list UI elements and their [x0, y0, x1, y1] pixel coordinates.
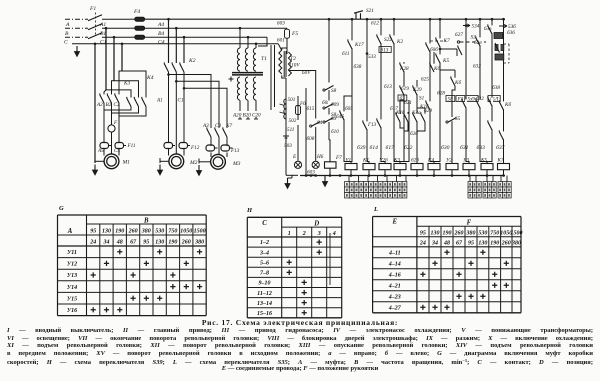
svg-text:S1: S1: [419, 96, 425, 102]
svg-text:1: 1: [288, 231, 291, 237]
svg-text:М1: М1: [122, 160, 131, 166]
stair to M3 1: [169, 75, 212, 129]
svg-text:34: 34: [103, 239, 110, 245]
svg-text:F11: F11: [127, 143, 136, 149]
M2 ground stub: [160, 160, 169, 162]
svg-text:63в: 63в: [484, 26, 492, 32]
svg-text:110V: 110V: [289, 63, 300, 69]
right cluster contact 1: [491, 25, 493, 33]
control wire v10: [451, 96, 453, 160]
K7 link: [439, 48, 442, 51]
motor M3: [211, 154, 226, 169]
svg-text:S8: S8: [331, 88, 337, 94]
svg-text:130: 130: [478, 240, 487, 246]
thermal F11 element 1: [100, 143, 109, 149]
coil feed joint: [400, 160, 404, 163]
svg-text:б37: б37: [496, 144, 505, 151]
svg-text:603: 603: [277, 21, 285, 27]
K3 K4 output merge 3: [119, 107, 146, 117]
M1 phase B down: [111, 107, 113, 125]
svg-text:511: 511: [287, 127, 295, 133]
svg-text:б0б: б0б: [430, 46, 438, 53]
S3 dashed link: [457, 41, 459, 43]
svg-text:б19: б19: [401, 85, 409, 92]
control wire v4: [380, 19, 382, 160]
svg-text:260: 260: [181, 239, 191, 245]
coil feed joint: [466, 160, 469, 163]
svg-text:К1: К1: [362, 158, 369, 164]
arrow 536: [499, 24, 507, 27]
switch F1 pole 3: [88, 33, 102, 39]
svg-text:В: В: [65, 31, 69, 37]
M2 feeder drop phase B: [175, 28, 177, 63]
lamp H6: [312, 161, 319, 168]
svg-text:В4: В4: [158, 31, 164, 37]
svg-text:Т1: Т1: [261, 56, 267, 62]
switch F1 pole 1: [88, 15, 102, 21]
svg-text:С1: С1: [178, 98, 184, 104]
right cluster box 2: [495, 54, 504, 60]
switch F1 link: [95, 13, 97, 37]
relay coil К4: [428, 164, 440, 170]
boxes row 3: [466, 96, 478, 102]
svg-text:48: 48: [116, 239, 123, 245]
svg-text:К28: К28: [399, 66, 409, 72]
relay coil F7: [325, 162, 337, 168]
svg-text:95: 95: [468, 240, 474, 246]
svg-text:У3: У3: [463, 158, 469, 164]
T1 secondary winding 2: [245, 77, 248, 100]
svg-text:Т2: Т2: [290, 56, 296, 62]
M1 feeder drop phase C: [121, 44, 123, 71]
coil feed joint: [503, 160, 505, 163]
svg-text:380: 380: [141, 228, 151, 234]
caption: [0, 318, 600, 327]
right cluster box K4: [494, 33, 503, 39]
svg-text:4–14: 4–14: [388, 262, 401, 268]
svg-text:б13: б13: [381, 46, 389, 53]
extra wire v462 contact: [461, 46, 463, 54]
svg-text:С: С: [64, 40, 68, 46]
T1 core: [232, 72, 263, 74]
contact K2a: [393, 35, 395, 43]
svg-text:9–10: 9–10: [259, 281, 271, 287]
fuse F4 pole 2: [135, 26, 145, 30]
svg-text:G: G: [59, 205, 64, 212]
control wire v13: [491, 19, 493, 160]
svg-text:95: 95: [90, 228, 96, 234]
svg-text:К2: К2: [188, 58, 196, 64]
contactor K7 contact 2: [218, 128, 220, 136]
svg-text:б09: б09: [331, 101, 339, 108]
v344 top jog: [344, 96, 352, 100]
input phase line B (dash-dot): [65, 27, 88, 29]
svg-text:б2в: б2в: [474, 39, 482, 46]
contact K6b: [454, 77, 456, 85]
svg-text:б36: б36: [507, 29, 515, 36]
stub links: [400, 95, 404, 114]
svg-text:24: 24: [419, 240, 426, 246]
control wire v6: [403, 62, 405, 160]
right cluster dashes: [508, 44, 510, 63]
bus B4: [145, 27, 287, 29]
contact K28: [403, 63, 405, 71]
table H grid: [247, 217, 341, 317]
svg-text:3–4: 3–4: [259, 250, 269, 256]
svg-text:F1: F1: [89, 6, 96, 12]
svg-text:А5: А5: [97, 148, 104, 154]
table G grid: [58, 215, 207, 316]
control wire v9: [439, 19, 441, 160]
contact K6a: [433, 63, 435, 71]
svg-text:7–8: 7–8: [260, 271, 269, 277]
contact r3: [491, 97, 493, 105]
coil feed joint: [394, 160, 400, 163]
coil feed joint: [480, 160, 487, 163]
control wire v7: [416, 80, 418, 160]
svg-text:15Л: 15Л: [490, 96, 499, 102]
svg-text:S21: S21: [366, 8, 374, 14]
svg-text:58: 58: [448, 96, 454, 102]
switch S21: [354, 11, 363, 20]
svg-text:б32: б32: [476, 95, 484, 102]
contactor K2 contact 3: [183, 63, 185, 71]
coil feed joint: [451, 160, 453, 163]
T1 feed drop 1: [239, 28, 241, 48]
contactor K3 contact 3: [118, 94, 120, 102]
coil feed joint: [430, 160, 434, 163]
svg-text:б38: б38: [354, 63, 362, 70]
svg-text:130: 130: [102, 228, 111, 234]
svg-text:4–21: 4–21: [388, 284, 401, 290]
contact K17: [351, 40, 353, 48]
input phase line A (dash-dot): [65, 18, 88, 20]
svg-text:F13: F13: [230, 148, 240, 154]
contactor K3 contact 1: [103, 94, 105, 102]
T1 output ticks: [238, 118, 242, 120]
svg-text:534: 534: [472, 23, 480, 30]
S9 chain: [328, 90, 330, 104]
T2 output 60V: [288, 71, 315, 89]
svg-text:К17: К17: [354, 42, 364, 48]
svg-text:F7: F7: [335, 155, 342, 161]
contact K5: [439, 54, 441, 62]
svg-text:Е: Е: [392, 219, 398, 226]
svg-text:б15: б15: [307, 105, 315, 112]
svg-text:А: А: [67, 228, 73, 235]
coil feed joint: [487, 160, 492, 163]
thermal F12 element 2: [179, 143, 188, 149]
svg-text:501: 501: [288, 97, 296, 103]
svg-text:5Зб: 5Зб: [508, 23, 516, 30]
svg-text:К4а: К4а: [411, 109, 421, 116]
svg-text:К29: К29: [412, 87, 422, 93]
terminal 533: [366, 52, 369, 55]
thermal F13 element 1: [206, 145, 215, 151]
neutral bus line: [72, 43, 278, 45]
svg-text:627: 627: [455, 32, 463, 38]
svg-text:А2: А2: [96, 102, 103, 108]
ground at input: [76, 46, 78, 53]
coil feed joint: [344, 160, 351, 163]
svg-text:Г13: Г13: [367, 122, 377, 128]
svg-text:А1: А1: [99, 22, 106, 28]
svg-text:L: L: [373, 206, 378, 213]
F7 wires: [328, 135, 330, 140]
contactor K7 contact 3: [226, 128, 228, 136]
control wire v5: [393, 19, 395, 160]
switch S4 contact: [315, 119, 317, 126]
relay coil б2б: [411, 164, 423, 170]
svg-text:К3: К3: [393, 158, 400, 164]
T2 secondary winding: [288, 52, 291, 76]
svg-text:F5: F5: [291, 31, 298, 37]
svg-text:К3: К3: [123, 81, 130, 87]
svg-text:А1: А1: [156, 98, 163, 104]
boxes row 4: [488, 96, 500, 102]
relay coil К1: [363, 164, 375, 170]
M2 feeder drop phase C: [183, 37, 185, 63]
coil feed joint: [351, 160, 352, 163]
svg-text:Е: Е: [292, 154, 297, 160]
K3 feed link 1: [104, 90, 106, 95]
svg-text:М3: М3: [232, 161, 241, 167]
bus A4 top control bus: [145, 18, 505, 20]
svg-text:503: 503: [284, 143, 292, 149]
M1 phase C down: [118, 107, 120, 142]
ground under M3: [198, 165, 200, 172]
T1 star point ground: [229, 77, 234, 82]
T1 primary winding 3: [253, 48, 256, 71]
control wire v2: [351, 19, 353, 160]
coil feed joint: [381, 160, 385, 163]
switch F1 pole 2: [88, 24, 102, 30]
svg-text:S4: S4: [317, 119, 323, 126]
relay coil К3: [394, 164, 406, 170]
control wire v8: [429, 19, 431, 160]
svg-text:4–27: 4–27: [388, 306, 402, 312]
fuse F4 pole 3: [135, 35, 145, 39]
arrow 534: [465, 24, 468, 27]
svg-text:А4: А4: [157, 22, 164, 28]
svg-text:С20: С20: [252, 113, 261, 119]
svg-text:502: 502: [289, 118, 297, 124]
extra wire v409: [408, 100, 410, 158]
wire A after switch: [102, 18, 130, 20]
svg-text:А3: А3: [202, 123, 209, 129]
T1 output stubs: [239, 117, 241, 119]
svg-text:К2: К2: [396, 39, 403, 45]
ground under M1: [94, 165, 96, 172]
svg-text:С4: С4: [158, 40, 165, 46]
svg-text:130: 130: [431, 230, 440, 236]
svg-text:А: А: [65, 22, 70, 28]
lamp loop 2 left: [305, 88, 307, 175]
cluster contact 1: [399, 113, 401, 121]
svg-text:260: 260: [454, 230, 464, 236]
fuse F4 pole 1: [135, 17, 145, 21]
K3 K4 output merge 2: [112, 107, 139, 114]
cluster contact 3: [416, 113, 418, 121]
svg-text:б13: б13: [384, 83, 392, 90]
svg-text:533: 533: [368, 54, 376, 60]
svg-text:1050: 1050: [180, 228, 192, 234]
bus C4: [145, 36, 267, 38]
K3 feed link 3: [119, 71, 122, 95]
svg-text:F12: F12: [190, 145, 200, 151]
svg-text:11–12: 11–12: [257, 291, 272, 297]
svg-text:F: F: [467, 219, 472, 226]
M2 leads: [168, 149, 170, 156]
M1 feeder drop phase B: [113, 37, 115, 80]
svg-text:4–11: 4–11: [388, 251, 401, 257]
M3 ground stub: [199, 161, 211, 163]
control wire v12: [479, 19, 481, 160]
fuse F5: [285, 29, 290, 38]
contactor K2 contact 2: [175, 63, 177, 71]
svg-text:530: 530: [155, 228, 164, 234]
lamp loop 2 bottom: [306, 174, 316, 176]
terminal block group 1: [345, 182, 350, 188]
svg-text:В2: В2: [106, 102, 112, 108]
extra junction dots bottom bus: [305, 174, 308, 177]
svg-text:б39: б39: [357, 144, 366, 151]
polarity mark: [283, 136, 289, 138]
svg-text:48: 48: [443, 240, 450, 246]
svg-text:260: 260: [128, 228, 138, 234]
contactor K3 contact 2: [111, 94, 113, 102]
thermal F11 element 2: [115, 143, 124, 149]
T1 feed drop 3: [255, 44, 257, 48]
M1 phase A down: [103, 107, 105, 142]
svg-text:260: 260: [501, 240, 511, 246]
svg-text:380: 380: [194, 239, 204, 245]
boxes row 2: [456, 96, 465, 102]
control wire v14: [503, 19, 505, 160]
K4 stair elbow mid: [114, 81, 139, 98]
svg-text:1500: 1500: [194, 228, 206, 234]
relay coil К5: [481, 164, 493, 170]
svg-text:67: 67: [130, 239, 137, 245]
table L grid: [373, 217, 523, 313]
svg-text:3: 3: [317, 231, 321, 237]
svg-text:У16: У16: [67, 308, 77, 314]
svg-text:Кб: Кб: [433, 65, 440, 72]
svg-text:У11: У11: [67, 250, 77, 256]
coil feed joint: [367, 160, 369, 163]
contact F13c: [366, 121, 368, 129]
relay F circle: [108, 125, 115, 132]
svg-text:У14: У14: [67, 285, 77, 291]
svg-text:2: 2: [302, 231, 306, 237]
T1 primary winding 2: [245, 48, 248, 71]
contact extra c480: [479, 37, 481, 45]
svg-text:К5: К5: [480, 158, 487, 164]
contact extra c344b: [343, 111, 345, 119]
svg-text:750: 750: [490, 230, 499, 236]
svg-text:S5: S5: [455, 116, 461, 122]
TABLES: [58, 205, 523, 318]
svg-text:95: 95: [143, 239, 149, 245]
right cluster contact mid: [499, 44, 501, 52]
coil feed joint: [416, 160, 418, 163]
terminal block group 2: [468, 182, 472, 188]
svg-text:Кб: Кб: [454, 79, 461, 86]
svg-text:б08: б08: [307, 135, 315, 142]
svg-text:У12: У12: [67, 262, 77, 268]
contact K29: [416, 86, 418, 94]
ground mid: [324, 176, 326, 183]
contact 619: [403, 86, 405, 94]
svg-text:б28: б28: [437, 90, 445, 97]
thermal F12 element 1: [164, 143, 173, 149]
contact S22: [380, 35, 382, 43]
svg-text:К4: К4: [427, 157, 434, 164]
svg-text:190: 190: [443, 230, 452, 236]
switch S8: [328, 83, 330, 90]
svg-text:190: 190: [115, 228, 124, 234]
svg-text:F: F: [113, 120, 118, 126]
svg-text:У2: У2: [446, 158, 452, 164]
contact extra c430 mid: [429, 101, 431, 109]
T1 secondary winding 1: [237, 77, 240, 100]
svg-text:б22: б22: [404, 144, 413, 151]
M1 feeder drop phase A: [105, 28, 107, 90]
tap arrow 1: [280, 104, 285, 106]
svg-text:У2б: У2б: [379, 157, 388, 164]
svg-text:15–16: 15–16: [257, 311, 272, 317]
stair to M3 2: [176, 81, 219, 128]
relay coil К7: [498, 164, 510, 170]
contact S5: [451, 115, 453, 122]
svg-text:632: 632: [473, 64, 481, 70]
coil feed joint: [434, 160, 440, 163]
svg-text:4–16: 4–16: [388, 273, 401, 279]
svg-text:F4: F4: [133, 9, 140, 15]
terminal box 613: [379, 47, 391, 53]
svg-text:б17: б17: [386, 144, 395, 151]
lamp loop 1 bottom: [286, 174, 298, 176]
cluster contact 2: [407, 113, 409, 121]
control wire v11: [465, 19, 467, 160]
svg-text:К7: К7: [225, 123, 232, 129]
svg-text:б29: б29: [424, 107, 432, 114]
cluster top boxes: [398, 95, 407, 101]
T1 primary winding 1: [237, 48, 240, 71]
motor M2: [169, 154, 184, 169]
svg-text:У13: У13: [67, 273, 77, 279]
K3 feed link 2: [112, 81, 115, 95]
svg-text:Кб: Кб: [504, 101, 511, 108]
svg-text:67: 67: [456, 240, 463, 246]
contactor K7 contact 1: [210, 128, 212, 136]
svg-text:95: 95: [420, 230, 426, 236]
svg-text:530: 530: [478, 230, 487, 236]
K4 stair elbow low: [106, 90, 131, 98]
contact r1: [465, 99, 467, 107]
lamp loop 2 right: [315, 88, 317, 122]
dashed 627b: [430, 40, 446, 42]
svg-text:601: 601: [277, 38, 285, 44]
svg-text:380: 380: [511, 240, 521, 246]
svg-text:К5: К5: [442, 58, 449, 64]
K4 stair elbow top: [122, 71, 146, 98]
K3 K4 output merge 1: [104, 107, 131, 111]
T1 feed drop 2: [247, 37, 249, 48]
svg-text:б21: б21: [404, 99, 412, 106]
svg-text:б38: б38: [492, 84, 500, 91]
contact extra c503 low: [503, 131, 505, 139]
